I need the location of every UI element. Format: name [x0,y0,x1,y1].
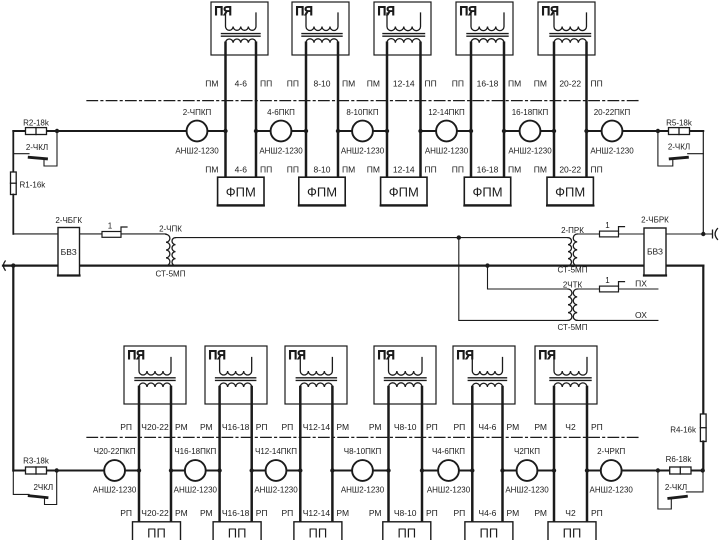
svg-text:2ЧКЛ: 2ЧКЛ [33,483,53,492]
transformer box ПЯ (lower section Ч8-10) [374,346,436,404]
svg-text:АНШ2-1230: АНШ2-1230 [427,486,471,495]
fuse 1 (right feed) [600,221,625,237]
filter ФПМ 20-22 [547,177,594,205]
svg-text:РП: РП [426,508,438,518]
filter ФПМ 16-18 [464,177,510,205]
wire: ОХ supply line [577,319,658,321]
svg-text:R4-16k: R4-16k [670,426,697,435]
relay Ч2ПКП (АНШ2-1230) [505,447,549,495]
svg-text:ПП: ПП [309,526,328,540]
svg-text:R2-18k: R2-18k [23,119,50,128]
svg-text:16-18: 16-18 [477,79,499,89]
svg-text:4-6: 4-6 [235,79,248,89]
svg-text:РП: РП [256,422,268,432]
svg-text:20-22: 20-22 [559,79,581,89]
transformer box ПЯ (lower section Ч4-6) [453,346,515,404]
svg-text:РП: РП [454,508,466,518]
svg-text:Ч4-6: Ч4-6 [478,422,496,432]
svg-text:Ч4-6ПКП: Ч4-6ПКП [432,447,465,456]
svg-text:РМ: РМ [507,422,520,432]
wire: feed line right (thin) through fuse to БВЗ right [577,233,712,235]
wire: leads from ПЯ 20-22 down to filter [554,43,587,177]
svg-text:12-14ПКП: 12-14ПКП [428,108,465,117]
svg-text:ФПМ: ФПМ [555,185,585,200]
svg-text:ПМ: ПМ [534,79,547,89]
svg-text:РМ: РМ [200,508,213,518]
svg-text:ПЯ: ПЯ [128,348,145,362]
svg-text:АНШ2-1230: АНШ2-1230 [590,486,634,495]
wire: leads from ПЯ Ч2 down to ПП box [554,387,587,522]
svg-text:8-10: 8-10 [313,165,330,175]
svg-text:Ч16-18: Ч16-18 [222,422,250,432]
svg-text:ПЯ: ПЯ [378,348,395,362]
wire: leads from ПЯ Ч4-6 down to ПП box [472,387,502,522]
svg-text:ПЯ: ПЯ [296,4,313,18]
fuse 1 (left feed) [102,222,127,238]
wire: right vertical riser [702,131,704,414]
svg-text:ФПМ: ФПМ [472,185,502,200]
transformer box ПЯ (upper section 4-6) [211,2,268,55]
svg-text:БВЗ: БВЗ [647,247,663,257]
relay 4-6ПКП (АНШ2-1230) [259,108,303,156]
resistor R3-18k [23,457,50,475]
svg-text:ПЯ: ПЯ [378,4,395,18]
svg-text:ПП: ПП [591,165,603,175]
svg-text:ПП: ПП [591,79,603,89]
svg-text:ФПМ: ФПМ [307,185,337,200]
svg-text:2-ЧКЛ: 2-ЧКЛ [26,143,48,152]
svg-text:РМ: РМ [369,508,382,518]
svg-text:2-ЧКЛ: 2-ЧКЛ [668,143,690,152]
wire: branch from thick line to 2ЧТК upper winding [488,266,569,289]
relay 20-22ПКП (АНШ2-1230) [590,108,634,156]
filter ФПМ 12-14 [381,177,427,205]
svg-text:4-6ПКП: 4-6ПКП [267,108,295,117]
resistor R1-16k (vertical, left) [11,131,47,234]
svg-text:РП: РП [591,508,603,518]
svg-text:РМ: РМ [369,422,382,432]
node labels row above filters (top half) [205,165,602,175]
svg-text:АНШ2-1230: АНШ2-1230 [254,486,298,495]
svg-text:ПП: ПП [260,165,272,175]
svg-text:ПП: ПП [452,79,464,89]
svg-text:1: 1 [108,222,113,231]
svg-text:АНШ2-1230: АНШ2-1230 [174,486,218,495]
svg-text:РМ: РМ [200,422,213,432]
transformer box ПЯ (lower section Ч12-14) [285,346,347,404]
svg-text:2-ЧПКП: 2-ЧПКП [183,108,212,117]
transformer box ПЯ (upper section 12-14) [374,2,431,55]
svg-text:АНШ2-1230: АНШ2-1230 [505,486,549,495]
svg-text:АНШ2-1230: АНШ2-1230 [341,486,385,495]
transformer 2-ЧПК (СТ-5МП) [156,225,186,279]
svg-text:20-22: 20-22 [559,165,581,175]
transformer box ПЯ (lower section Ч2) [535,346,597,404]
wire: leads from ПЯ Ч16-18 down to ПП box [220,387,252,522]
relay Ч4-6ПКП (АНШ2-1230) [427,447,471,495]
svg-text:Ч8-10: Ч8-10 [394,508,417,518]
wire: leads from ПЯ 12-14 down to filter [387,43,421,177]
boundary dash-dot line (bottom half) [87,436,641,438]
svg-text:ПП: ПП [287,165,299,175]
svg-text:СТ-5МП: СТ-5МП [558,266,588,275]
connector mark (left edge) [3,261,5,270]
svg-text:ФПМ: ФПМ [226,185,256,200]
svg-text:Ч2: Ч2 [565,508,576,518]
svg-text:БВЗ: БВЗ [61,247,77,257]
svg-text:8-10: 8-10 [313,79,330,89]
svg-text:ПМ: ПМ [205,79,218,89]
svg-text:АНШ2-1230: АНШ2-1230 [508,147,552,156]
svg-text:РМ: РМ [336,422,349,432]
svg-text:АНШ2-1230: АНШ2-1230 [175,147,219,156]
switch 2-ЧКЛ (top left) [13,132,57,167]
filter ФПМ 4-6 [218,177,264,205]
svg-text:РМ: РМ [534,508,547,518]
resistor R6-18k [666,455,693,474]
svg-text:ПМ: ПМ [342,165,355,175]
wire: leads from ПЯ 8-10 down to filter [306,43,338,177]
svg-text:ПП: ПП [147,526,166,540]
svg-text:ПХ: ПХ [635,279,647,289]
svg-text:АНШ2-1230: АНШ2-1230 [93,486,137,495]
svg-text:Ч2: Ч2 [565,422,576,432]
svg-text:ПП: ПП [425,165,437,175]
fuse 1 (ПХ supply line) [577,276,658,292]
svg-text:АНШ2-1230: АНШ2-1230 [259,147,303,156]
svg-text:R1-16k: R1-16k [20,181,47,190]
svg-text:ПМ: ПМ [508,79,521,89]
wire: lower rail line segments [13,470,703,472]
protection block БВЗ (right, 2-ЧБРК) [641,216,669,276]
svg-text:ПП: ПП [480,526,499,540]
relay Ч12-14ПКП (АНШ2-1230) [254,447,298,495]
svg-text:Ч20-22: Ч20-22 [141,422,169,432]
svg-text:РП: РП [591,422,603,432]
wire: left vertical riser (lower) [12,266,14,471]
wire: branch down to 2ЧТК lower winding [459,238,568,321]
svg-text:R6-18k: R6-18k [666,455,693,464]
svg-text:2-ЧПК: 2-ЧПК [159,225,182,234]
svg-text:ПЯ: ПЯ [542,4,559,18]
cable box ПП Ч8-10 [383,522,431,540]
svg-text:РМ: РМ [534,422,547,432]
cable box ПП Ч20-22 [133,522,181,540]
transformer 2-ПРК (СТ-5МП) [558,226,588,275]
node labels row above separation line (bottom half) [120,422,603,432]
svg-text:16-18ПКП: 16-18ПКП [512,108,549,117]
wire: middle link line (thin) between track transformers [176,237,569,239]
svg-text:ПЯ: ПЯ [460,4,477,18]
relay Ч16-18ПКП (АНШ2-1230) [174,447,218,495]
svg-text:Ч16-18ПКП: Ч16-18ПКП [174,447,216,456]
switch 2-ЧКЛ (top right) [658,132,703,167]
svg-text:ПЯ: ПЯ [289,348,306,362]
svg-text:РП: РП [282,508,294,518]
svg-text:Ч4-6: Ч4-6 [478,508,496,518]
relay 2-ЧРКП (АНШ2-1230) [590,447,634,495]
cable box ПП Ч16-18 [213,522,261,540]
svg-text:АНШ2-1230: АНШ2-1230 [590,147,634,156]
wire: upper rail line segments [13,130,703,132]
svg-text:РМ: РМ [175,422,188,432]
svg-text:РМ: РМ [336,508,349,518]
wire: leads from ПЯ Ч20-22 down to ПП box [139,387,171,522]
svg-text:ПМ: ПМ [342,79,355,89]
cable box ПП Ч4-6 [465,522,513,540]
svg-text:РП: РП [120,422,132,432]
resistor R4-16k (vertical, right) [670,414,706,470]
svg-text:ПП: ПП [287,79,299,89]
svg-text:ПЯ: ПЯ [215,4,232,18]
svg-text:R5-18k: R5-18k [666,119,693,128]
svg-text:ПМ: ПМ [205,165,218,175]
switch 2-ЧКЛ (bottom right) [658,470,703,509]
svg-text:2-ЧБГК: 2-ЧБГК [55,216,82,225]
svg-text:АНШ2-1230: АНШ2-1230 [341,147,385,156]
svg-text:Ч20-22: Ч20-22 [141,508,169,518]
svg-text:ПЯ: ПЯ [457,348,474,362]
svg-text:ПП: ПП [397,526,416,540]
svg-text:16-18: 16-18 [477,165,499,175]
svg-text:РП: РП [120,508,132,518]
svg-text:РМ: РМ [507,508,520,518]
svg-text:20-22ПКП: 20-22ПКП [594,108,631,117]
svg-text:ПЯ: ПЯ [539,348,556,362]
boundary dash-dot line (top half) [87,100,641,102]
cable box ПП Ч2 [548,522,596,540]
relay 2-ЧПКП (АНШ2-1230) [175,108,219,156]
svg-text:ПП: ПП [425,79,437,89]
svg-text:ПП: ПП [452,165,464,175]
svg-text:1: 1 [605,276,610,285]
svg-text:РП: РП [256,508,268,518]
svg-text:8-10ПКП: 8-10ПКП [346,108,378,117]
protection block БВЗ (left, 2-ЧБГК) [55,216,82,276]
svg-text:ПМ: ПМ [367,165,380,175]
svg-text:Ч12-14: Ч12-14 [303,422,331,432]
wire: leads from ПЯ 16-18 down to filter [471,43,504,177]
resistor R2-18k [23,119,50,135]
relay Ч8-10ПКП (АНШ2-1230) [341,447,385,495]
svg-text:ПП: ПП [260,79,272,89]
switch 2ЧКЛ (bottom left) [13,471,56,505]
node labels row below relays (bottom half) [120,508,603,518]
svg-text:АНШ2-1230: АНШ2-1230 [425,147,469,156]
svg-text:РП: РП [454,422,466,432]
cable box ПП Ч12-14 [294,522,342,540]
svg-text:ПМ: ПМ [508,165,521,175]
svg-text:РП: РП [282,422,294,432]
svg-text:Ч12-14: Ч12-14 [303,508,331,518]
connector mark (right edge) [713,229,718,240]
svg-text:2-ЧБРК: 2-ЧБРК [641,216,669,225]
svg-text:Ч8-10ПКП: Ч8-10ПКП [344,447,382,456]
transformer 2ЧТК (СТ-5МП) [558,281,588,333]
svg-text:ПЯ: ПЯ [209,348,226,362]
svg-text:ПП: ПП [228,526,247,540]
svg-text:Ч8-10: Ч8-10 [394,422,417,432]
wire: leads from ПЯ Ч12-14 down to ПП box [300,387,332,522]
svg-text:12-14: 12-14 [393,79,415,89]
transformer box ПЯ (lower section Ч16-18) [205,346,267,404]
filter ФПМ 8-10 [299,177,345,205]
svg-text:Ч20-22ПКП: Ч20-22ПКП [94,447,136,456]
wire: left feed line (thin) to БВЗ and transformer [13,233,166,235]
svg-text:ОХ: ОХ [635,310,647,320]
svg-text:СТ-5МП: СТ-5МП [558,323,588,332]
svg-text:1: 1 [605,221,610,230]
svg-text:ПП: ПП [563,526,582,540]
transformer box ПЯ (upper section 16-18) [456,2,513,55]
resistor R5-18k (top right) [666,119,693,135]
relay 12-14ПКП (АНШ2-1230) [425,108,469,156]
svg-text:R3-18k: R3-18k [23,457,50,466]
svg-text:ПМ: ПМ [367,79,380,89]
svg-text:2ЧТК: 2ЧТК [563,281,583,290]
svg-text:Ч2ПКП: Ч2ПКП [514,447,540,456]
svg-text:2-ЧРКП: 2-ЧРКП [597,447,625,456]
svg-text:Ч16-18: Ч16-18 [222,508,250,518]
transformer box ПЯ (upper section 20-22) [538,2,595,55]
svg-text:ФПМ: ФПМ [389,185,419,200]
wire: main middle line (thick) [3,265,703,267]
svg-text:2-ЧКЛ: 2-ЧКЛ [665,483,687,492]
svg-text:РП: РП [426,422,438,432]
node labels row above separation line (top half) [205,79,602,89]
relay 16-18ПКП (АНШ2-1230) [508,108,552,156]
svg-text:Ч12-14ПКП: Ч12-14ПКП [255,447,297,456]
svg-text:СТ-5МП: СТ-5МП [156,270,186,279]
transformer box ПЯ (upper section 8-10) [292,2,349,55]
svg-text:РМ: РМ [175,508,188,518]
wire: leads from ПЯ 4-6 down to filter [226,43,257,177]
relay 8-10ПКП (АНШ2-1230) [341,108,385,156]
relay Ч20-22ПКП (АНШ2-1230) [93,447,137,495]
svg-text:ПМ: ПМ [534,165,547,175]
svg-text:12-14: 12-14 [393,165,415,175]
svg-text:4-6: 4-6 [235,165,248,175]
transformer box ПЯ (lower section Ч20-22) [124,346,186,404]
wire: leads from ПЯ Ч8-10 down to ПП box [389,387,423,522]
